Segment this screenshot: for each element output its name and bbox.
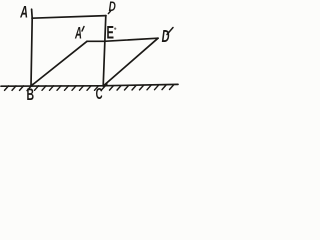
side CD' (sheared right side): [103, 38, 158, 86]
ground hatching: [5, 84, 174, 91]
label D: [108, 11, 110, 14]
label B: [27, 89, 33, 101]
label E: [107, 26, 113, 39]
side A'D' (sheared top, through E): [87, 38, 158, 41]
label A': [75, 27, 81, 39]
prime of D': [167, 28, 173, 35]
label C: [96, 88, 102, 99]
label D': [162, 30, 169, 42]
prime of A': [82, 27, 84, 32]
side BA' (sheared left side): [31, 41, 87, 86]
speck: [114, 28, 116, 30]
edge AD (top of rectangle): [32, 16, 106, 19]
ground line: [1, 84, 178, 86]
label A: [20, 6, 27, 18]
edge DC (right side of rectangle): [103, 16, 106, 86]
edge AB (left side of rectangle): [31, 9, 32, 86]
